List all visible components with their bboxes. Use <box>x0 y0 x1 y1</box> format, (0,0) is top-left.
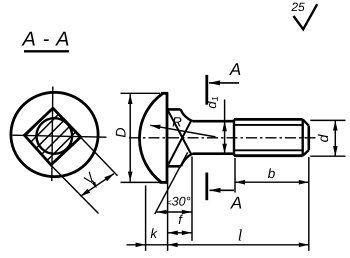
svg-text:<30°: <30° <box>166 195 190 209</box>
svg-text:D: D <box>112 127 128 137</box>
svg-text:d: d <box>315 133 331 142</box>
svg-text:b: b <box>268 166 276 181</box>
svg-text:A: A <box>230 194 242 213</box>
svg-text:A: A <box>229 60 241 79</box>
svg-text:R: R <box>172 115 182 130</box>
svg-text:A - A: A - A <box>22 29 71 51</box>
svg-text:25: 25 <box>290 0 305 14</box>
svg-text:l: l <box>238 228 243 245</box>
